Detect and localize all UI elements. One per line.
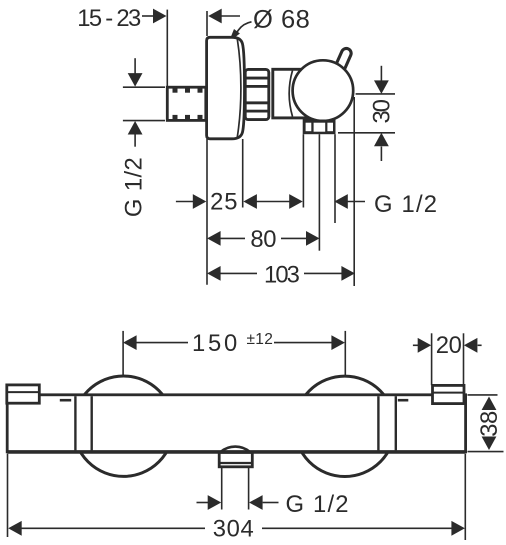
central outlet flange	[219, 453, 252, 467]
dimension 38 arrows	[482, 397, 497, 411]
svg-text:±12: ±12	[247, 331, 274, 348]
extension line escutcheon back top	[206, 11, 208, 36]
tick union top	[123, 86, 165, 88]
extension line escutcheon back long	[206, 139, 208, 285]
dimension 30 arrows	[380, 66, 382, 81]
wall union S-connector body	[167, 87, 206, 120]
dimension G1/2 outlet arrow	[334, 194, 348, 209]
handle knob circle	[293, 60, 354, 121]
svg-text:304: 304	[213, 515, 255, 542]
handle lever tab	[341, 53, 346, 65]
dimension 30 tick top	[356, 93, 395, 95]
dimension G1/2 union lower arrow	[128, 121, 143, 135]
svg-text:80: 80	[250, 226, 276, 253]
svg-text:150: 150	[192, 330, 240, 357]
extension line outlet right	[334, 134, 336, 223]
tick union bottom	[123, 120, 165, 122]
extension line outlet left	[302, 134, 304, 207]
dimension 30 tick bottom	[338, 132, 395, 134]
outlet rib slots	[306, 123, 312, 132]
extension lines bar ends	[7, 454, 9, 537]
svg-text:20: 20	[436, 332, 462, 359]
svg-text:G 1/2: G 1/2	[121, 157, 148, 217]
extension line escutcheon front	[242, 139, 244, 208]
leader line diameter 68	[235, 22, 252, 36]
escutcheon side view outline	[207, 37, 245, 139]
left collar lines	[74, 396, 76, 450]
central outlet dome	[221, 447, 251, 452]
dimension 103	[207, 266, 221, 281]
dimension G1/2 bottom arrows	[197, 502, 209, 504]
escutcheon cap inner contour	[237, 39, 241, 137]
union thread teeth top	[173, 88, 178, 92]
right inner dash	[398, 399, 409, 402]
extension line outlet axis	[318, 134, 320, 251]
dimension 15-23 left leader and arrow	[142, 15, 155, 17]
extension line right circle axis	[344, 331, 346, 376]
left wall union front	[7, 385, 40, 403]
dimension 80	[207, 231, 221, 246]
extension line union left edge	[166, 10, 168, 87]
svg-text:Ø68: Ø68	[253, 6, 310, 34]
extension lines central outlet	[221, 467, 223, 510]
check-valve nut outline	[245, 69, 269, 119]
dimension 304 arrows and line	[8, 521, 22, 536]
hose outlet ribbed block	[303, 118, 336, 134]
handle skirt arc	[289, 71, 292, 117]
svg-text:103: 103	[264, 261, 300, 288]
valve body	[273, 69, 322, 118]
extension lines bar top and bottom right	[468, 394, 498, 396]
dimension G1/2 union upper arrow	[134, 58, 136, 74]
svg-text:25: 25	[210, 189, 238, 216]
mixer bar body	[7, 395, 465, 452]
right collar lines	[377, 396, 379, 450]
svg-text:15 - 23: 15 - 23	[77, 5, 141, 32]
extension line handle front	[353, 97, 355, 286]
shared arrow line between 25 and G1/2	[243, 194, 257, 209]
left escutcheon circle front view	[73, 376, 173, 476]
svg-text:G 1/2: G 1/2	[374, 191, 438, 218]
svg-text:G 1/2: G 1/2	[286, 491, 350, 518]
bar bottom edge thick	[7, 450, 465, 454]
extension lines right union	[431, 333, 433, 385]
dimension 15-23 right arrow and tail	[208, 9, 222, 24]
dimension 25 left arrow	[176, 201, 193, 203]
extension line left circle axis	[122, 331, 124, 375]
dimension 20 arrows	[413, 344, 419, 346]
dimension 150 arrows and line	[123, 335, 137, 350]
svg-text:30: 30	[369, 99, 396, 123]
left inner dash	[60, 399, 71, 402]
right escutcheon circle front view	[295, 376, 395, 476]
nut thread bands	[245, 77, 270, 80]
union thread teeth bottom	[173, 115, 178, 119]
right wall union front	[433, 385, 465, 403]
svg-text:38: 38	[476, 411, 503, 437]
